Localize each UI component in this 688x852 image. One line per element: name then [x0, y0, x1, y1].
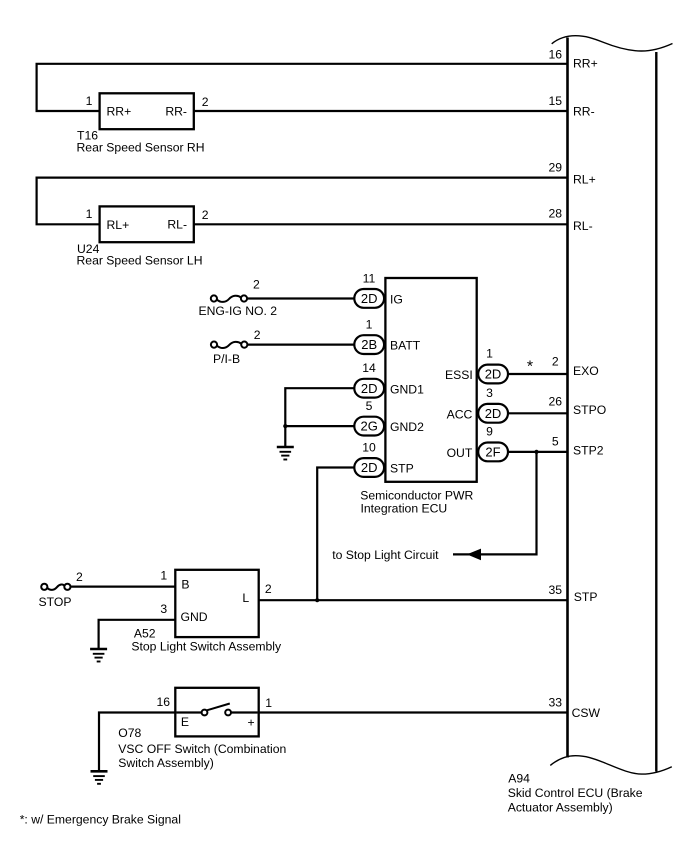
wire A52 GND to ground [99, 620, 176, 649]
connector A94 bus bottom wavy edge [550, 756, 672, 774]
wire ECU STP down to junction [317, 468, 354, 601]
svg-text:B: B [181, 578, 189, 592]
wire GND1 to ground [285, 388, 354, 447]
ground for A52 [90, 649, 107, 662]
svg-text:2D: 2D [485, 406, 502, 421]
svg-text:Semiconductor PWR: Semiconductor PWR [360, 488, 473, 502]
svg-text:*: * [527, 359, 533, 376]
svg-text:RR+: RR+ [573, 57, 598, 71]
svg-text:11: 11 [363, 272, 376, 286]
svg-text:to Stop Light Circuit: to Stop Light Circuit [332, 548, 439, 562]
junction on STP2 wire [534, 450, 538, 454]
connector A94 bus right vertical [655, 52, 657, 772]
svg-text:2: 2 [552, 354, 559, 368]
svg-text:10: 10 [362, 441, 376, 455]
svg-text:2: 2 [254, 328, 261, 342]
svg-text:5: 5 [552, 434, 559, 448]
svg-text:STP: STP [574, 590, 598, 604]
wire STPO from ACC oval to bus pin 26 [508, 412, 567, 414]
svg-text:1: 1 [160, 569, 167, 583]
svg-text:RL-: RL- [573, 219, 593, 233]
wire to stop light circuit [453, 452, 537, 555]
svg-text:Switch Assembly): Switch Assembly) [118, 756, 214, 770]
svg-text:OUT: OUT [447, 446, 473, 460]
wire O78 E to ground [99, 713, 175, 772]
svg-text:RL+: RL+ [573, 172, 596, 186]
connector A94 bus top wavy edge [552, 36, 673, 51]
svg-text:ENG-IG NO. 2: ENG-IG NO. 2 [199, 304, 278, 318]
svg-text:RR-: RR- [573, 105, 595, 119]
svg-text:STOP: STOP [39, 595, 72, 609]
svg-text:BATT: BATT [390, 339, 421, 353]
svg-text:GND: GND [181, 610, 208, 624]
wire GND2 horizontal [285, 425, 354, 427]
fuse STOP [41, 584, 70, 590]
ground for ECU GND1/GND2 [277, 447, 294, 460]
pin oval 2D GND1 [354, 379, 384, 398]
svg-text:15: 15 [549, 94, 563, 108]
wire RL+ loop: bus pin 29 to U24 pin 1 [37, 178, 568, 225]
svg-text:L: L [242, 591, 249, 605]
switch contacts O78 [202, 704, 231, 716]
svg-text:GND2: GND2 [390, 420, 424, 434]
svg-text:O78: O78 [118, 726, 141, 740]
svg-text:2: 2 [265, 582, 272, 596]
wire from fuse STOP to A52 pin 1 [71, 585, 176, 587]
svg-text:2F: 2F [485, 445, 500, 460]
svg-text:28: 28 [549, 206, 563, 220]
svg-text:RL+: RL+ [107, 218, 130, 232]
switch internal wire left O78 [176, 711, 201, 713]
junction GND1/GND2 [283, 424, 287, 428]
wire from fuse ENG-IG NO. 2 to ECU pin IG [247, 297, 354, 299]
wire CSW from O78 pin 1 to bus pin 33 [259, 711, 568, 713]
svg-text:33: 33 [549, 695, 563, 709]
svg-text:RR+: RR+ [107, 105, 132, 119]
ground for O78 [91, 771, 108, 784]
wire EXO from ESSI oval to bus pin 2 [508, 373, 567, 375]
svg-text:3: 3 [486, 386, 493, 400]
svg-text:1: 1 [86, 94, 93, 108]
svg-text:26: 26 [549, 395, 563, 409]
wire STP2 from OUT oval to bus pin 5 [508, 451, 567, 453]
svg-text:2: 2 [202, 208, 209, 222]
box U1 Semiconductor PWR Integration ECU [385, 278, 476, 482]
svg-text:2D: 2D [485, 367, 502, 382]
svg-text:ESSI: ESSI [445, 368, 473, 382]
svg-text:+: + [248, 716, 255, 730]
switch lever O78 [207, 704, 230, 711]
svg-text:2: 2 [76, 570, 83, 584]
svg-text:1: 1 [366, 318, 373, 332]
pin oval 2B BATT [354, 335, 384, 354]
svg-text:29: 29 [549, 161, 563, 175]
fuse P/I-B [211, 342, 248, 349]
svg-text:RR-: RR- [165, 104, 187, 118]
wire RR+ loop: bus pin 16 to T16 pin 1 [37, 64, 568, 111]
pin oval 2D ESSI [478, 365, 508, 384]
svg-text:VSC OFF Switch (Combination: VSC OFF Switch (Combination [118, 742, 286, 756]
wire STP from A52 pin 2 to bus pin 35 [259, 599, 568, 601]
svg-text:STP: STP [390, 462, 414, 476]
arrow to Stop Light Circuit [467, 549, 481, 561]
svg-text:Skid Control ECU (Brake: Skid Control ECU (Brake [508, 786, 643, 800]
svg-text:A52: A52 [134, 626, 156, 640]
junction STP wire [315, 598, 319, 602]
wire from fuse P/I-B to ECU pin BATT [247, 344, 354, 346]
pin oval 2D IG [354, 289, 384, 308]
switch internal wire right O78 [231, 711, 258, 713]
svg-text:STP2: STP2 [573, 443, 604, 457]
svg-text:2D: 2D [361, 381, 378, 396]
svg-text:2B: 2B [361, 337, 377, 352]
svg-text:Stop Light Switch Assembly: Stop Light Switch Assembly [131, 639, 282, 653]
pin oval 2D ACC [478, 404, 508, 423]
svg-text:1: 1 [265, 696, 272, 710]
svg-text:STPO: STPO [573, 403, 606, 417]
svg-text:5: 5 [366, 399, 373, 413]
svg-text:9: 9 [486, 424, 493, 438]
svg-text:IG: IG [390, 293, 403, 307]
svg-text:Rear Speed Sensor RH: Rear Speed Sensor RH [77, 140, 205, 154]
box A52 Stop Light Switch Assembly [175, 570, 258, 637]
svg-text:EXO: EXO [573, 364, 599, 378]
svg-text:16: 16 [549, 47, 563, 61]
box O78 VSC OFF Switch [175, 688, 258, 737]
svg-text:2: 2 [202, 95, 209, 109]
fuse ENG-IG NO. 2 [211, 295, 247, 302]
svg-text:A94: A94 [508, 772, 530, 786]
wire RL- from U24 pin 2 to bus pin 28 [194, 223, 568, 225]
svg-text:3: 3 [160, 602, 167, 616]
pin oval 2D STP [354, 458, 384, 477]
svg-text:16: 16 [157, 695, 171, 709]
svg-text:35: 35 [549, 583, 563, 597]
box U24 Rear Speed Sensor LH [100, 206, 194, 242]
svg-text:Integration ECU: Integration ECU [361, 501, 448, 515]
svg-text:RL-: RL- [167, 218, 187, 232]
pin oval 2G GND2 [354, 417, 384, 436]
connector A94 bus left vertical [566, 38, 569, 758]
pin oval 2F OUT [478, 443, 508, 462]
svg-text:*: w/ Emergency Brake Signal: *: w/ Emergency Brake Signal [20, 812, 181, 826]
svg-text:Actuator Assembly): Actuator Assembly) [508, 801, 613, 815]
svg-text:CSW: CSW [572, 706, 601, 720]
svg-text:2D: 2D [361, 291, 378, 306]
svg-text:2: 2 [253, 278, 260, 292]
svg-text:14: 14 [362, 361, 376, 375]
svg-text:ACC: ACC [447, 408, 473, 422]
svg-text:E: E [181, 715, 189, 729]
wire RR- from T16 pin 2 to bus pin 15 [194, 110, 568, 112]
svg-text:GND1: GND1 [390, 382, 424, 396]
svg-text:2G: 2G [361, 419, 378, 434]
svg-text:2D: 2D [361, 460, 378, 475]
svg-text:P/I-B: P/I-B [213, 352, 240, 366]
box T16 Rear Speed Sensor RH [100, 93, 194, 129]
svg-text:1: 1 [486, 347, 493, 361]
svg-text:1: 1 [86, 207, 93, 221]
svg-text:Rear Speed Sensor LH: Rear Speed Sensor LH [77, 254, 203, 268]
